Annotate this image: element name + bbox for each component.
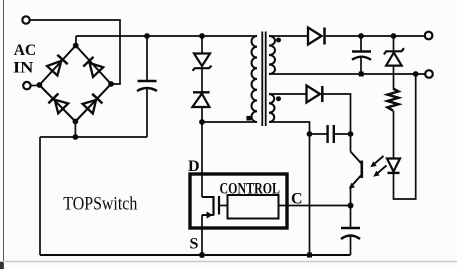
node bridge left corner (37, 82, 43, 88)
wire return left vertical (39, 137, 41, 255)
label AC IN (13, 42, 36, 76)
svg-text:IN: IN (13, 59, 33, 76)
svg-text:D: D (188, 158, 200, 175)
bridge diode D-TR (83, 57, 103, 77)
node drain junction (199, 119, 205, 125)
node bias cap left (307, 131, 313, 137)
phototransistor Q1 (349, 152, 362, 206)
diode D5 blocking (192, 92, 209, 107)
wire AC top to bridge right corner (30, 20, 120, 84)
node primary phase dot (246, 116, 251, 121)
wire bridge edge top-left (39, 46, 75, 86)
wire HV bus (76, 35, 257, 37)
wire bias diode lead (269, 93, 307, 95)
LED light arrows (370, 156, 386, 177)
wire AC bottom stub (31, 84, 40, 86)
capacitor C1 bulk (137, 36, 157, 137)
node bias return bus (307, 253, 312, 258)
zener VR2 feedback (384, 36, 404, 66)
node return junction (73, 134, 79, 140)
mosfet Q-power (202, 196, 228, 219)
diode D1 output rectifier (308, 28, 325, 45)
wire primary return bus (40, 254, 351, 256)
wire C pin line (279, 205, 351, 207)
wire zener to resistor (393, 66, 395, 89)
svg-text:TOPSwitch: TOPSwitch (63, 193, 137, 214)
resistor R1 (388, 89, 399, 111)
transformer T1 secondary (269, 36, 275, 74)
wire clamp middle (201, 68, 203, 92)
wire drain lead (201, 122, 203, 197)
diode D2 bias (307, 86, 323, 103)
wire resistor to LED (393, 111, 395, 159)
terminal output return (425, 70, 433, 78)
wire secondary return bus (269, 73, 425, 75)
terminal output plus (425, 32, 433, 40)
wire bias diode to collector (322, 94, 350, 152)
scan artifact bottom-left blob (0, 262, 3, 269)
node zener feed (391, 33, 397, 39)
bridge diode D-TL (47, 55, 68, 76)
node secondary phase dot (276, 38, 281, 43)
node bridge right corner (108, 81, 114, 87)
wire bridge edge top-right (76, 46, 111, 85)
capacitor C2 output (352, 36, 371, 74)
wire primary bottom (202, 121, 257, 123)
wire bridge edge bottom-left (39, 85, 75, 122)
zener VR1 clamp (193, 54, 212, 71)
wire source lead (201, 215, 203, 255)
wire riser bridge top to HV bus (75, 36, 77, 46)
node bulk cap top (144, 33, 150, 39)
wire clamp top lead (201, 36, 203, 54)
node bridge bottom corner (73, 119, 79, 125)
svg-text:S: S (190, 236, 199, 253)
node output cap top (358, 33, 364, 39)
wire output top (325, 35, 425, 37)
node clamp top (199, 33, 205, 39)
terminal AC top (22, 16, 29, 23)
node return loop junction (413, 71, 419, 77)
wire bias return (269, 122, 310, 255)
bridge diode D-BL (48, 94, 68, 114)
svg-text:C: C (291, 190, 303, 207)
svg-text:AC: AC (14, 42, 36, 59)
node output cap bottom (359, 72, 364, 77)
node bridge top corner (73, 43, 79, 49)
transformer T1 bias winding (269, 94, 274, 122)
node control pin junction (348, 203, 354, 209)
wire clamp bottom lead (201, 107, 203, 122)
wire LED return loop (394, 74, 416, 199)
control block inner box (228, 195, 279, 219)
scan artifact bottom gray line (0, 261, 457, 263)
node source bus (199, 252, 205, 258)
node bias cap right (348, 131, 354, 137)
capacitor C4 bypass (341, 206, 360, 256)
bridge diode D-BR (83, 94, 103, 114)
node bias phase dot (276, 96, 281, 101)
wire return horizontal (40, 136, 147, 138)
LED D4 optocoupler (387, 159, 400, 173)
TOPSwitch U1 block (190, 174, 287, 228)
transformer T1 primary (252, 36, 257, 122)
transformer T1 core (262, 32, 265, 127)
wire bridge edge bottom-right (75, 84, 111, 122)
wire secondary top lead (269, 35, 308, 37)
wire bridge bottom to return (74, 122, 76, 138)
capacitor C3 bias (310, 125, 351, 143)
scan artifact left edge line (3, 0, 5, 269)
terminal AC bottom (23, 82, 30, 89)
